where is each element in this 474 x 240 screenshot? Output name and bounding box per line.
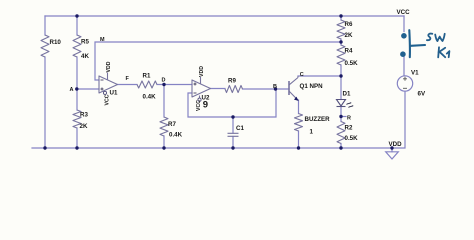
svg-text:4K: 4K <box>81 53 89 60</box>
svg-text:V1: V1 <box>411 69 419 76</box>
svg-text:R4: R4 <box>345 47 353 54</box>
svg-text:0.4K: 0.4K <box>143 94 157 101</box>
svg-text:R5: R5 <box>81 39 89 46</box>
svg-text:R: R <box>347 115 351 121</box>
svg-text:R9: R9 <box>228 78 236 85</box>
svg-text:C: C <box>300 72 304 78</box>
svg-text:Q1 NPN: Q1 NPN <box>300 83 324 90</box>
svg-text:2K: 2K <box>80 123 88 130</box>
svg-text:VDD: VDD <box>106 61 112 72</box>
svg-text:A: A <box>70 87 74 93</box>
svg-text:0.5K: 0.5K <box>345 135 359 142</box>
svg-text:R7: R7 <box>168 121 176 128</box>
svg-text:U1: U1 <box>110 90 118 97</box>
svg-text:1: 1 <box>310 129 314 136</box>
svg-text:B: B <box>273 84 277 90</box>
svg-text:9: 9 <box>203 99 208 110</box>
svg-text:VCC: VCC <box>397 9 411 16</box>
svg-text:2K: 2K <box>345 32 353 39</box>
svg-text:R2: R2 <box>345 125 353 132</box>
svg-text:R1: R1 <box>143 73 151 80</box>
svg-text:0.4K: 0.4K <box>169 132 183 139</box>
svg-text:C1: C1 <box>236 125 244 132</box>
svg-text:VDD: VDD <box>199 66 205 77</box>
svg-text:VDD: VDD <box>389 141 403 148</box>
svg-text:BUZZER: BUZZER <box>305 116 331 123</box>
svg-text:M: M <box>100 37 105 43</box>
svg-text:VCC: VCC <box>105 94 111 105</box>
svg-text:R10: R10 <box>50 39 62 46</box>
svg-text:R6: R6 <box>345 21 353 28</box>
svg-text:0.5K: 0.5K <box>345 60 359 67</box>
svg-text:D1: D1 <box>343 91 351 98</box>
svg-text:6V: 6V <box>418 91 426 98</box>
svg-text:VCC: VCC <box>196 100 202 111</box>
svg-text:R3: R3 <box>80 112 88 119</box>
svg-text:D: D <box>162 78 166 84</box>
